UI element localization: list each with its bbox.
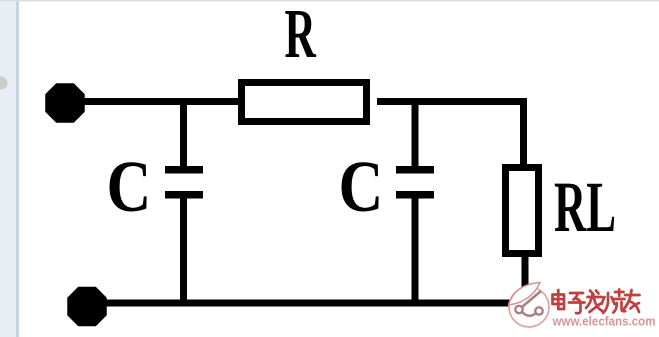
label R [285,0,317,73]
wire: top rail right segment [377,98,527,105]
sidebar strip [0,0,16,337]
capacitor C2 bottom plate [396,191,434,199]
wire: cap C2 bottom lead [412,198,419,303]
capacitor C1 bottom plate [165,191,203,199]
sidebar handle [0,77,8,90]
sidebar border line [16,0,19,337]
wire: cap C1 bottom lead [180,198,187,303]
wire: cap C1 top lead [180,101,187,167]
svg-text:C: C [339,146,384,227]
glyph 发 [586,291,603,313]
wire: bottom rail [87,300,531,307]
capacitor C2 top plate [396,166,434,174]
terminal dot bottom-left [68,288,106,326]
svg-text:R: R [285,0,317,73]
svg-text:C: C [107,146,152,227]
wire: top rail left segment [65,98,238,105]
watermark logo circle [509,283,550,328]
top hairline [0,0,659,2]
glyph 友 [624,290,640,312]
resistor RL [506,168,539,254]
svg-text:www.elecfans.com: www.elecfans.com [552,315,656,329]
glyph 子 [569,293,585,313]
wire: right drop to RL [520,98,527,167]
svg-text:RL: RL [554,167,616,246]
terminal dot top-left [46,84,84,122]
glyph 电 [553,290,565,309]
wire: cap C2 top lead [412,101,419,167]
wire: RL bottom lead [522,254,529,303]
glyph 烧 [602,290,626,314]
capacitor C1 top plate [165,166,203,174]
resistor R [242,83,367,122]
watermark text 电子发烧友 [553,290,640,314]
label C left [107,146,152,227]
label C right [339,146,384,227]
label RL [554,167,616,246]
